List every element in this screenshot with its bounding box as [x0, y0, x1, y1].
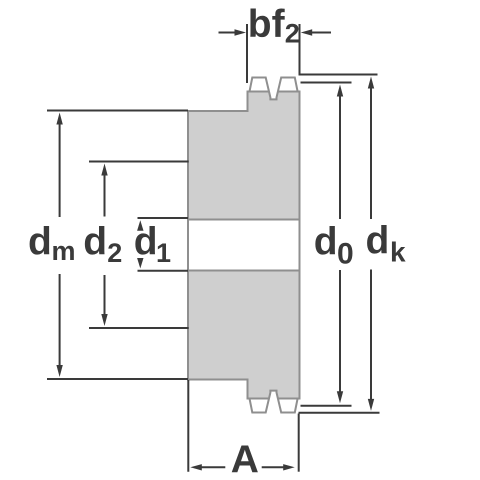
d1 up arrowhead: [137, 220, 143, 231]
dm dimension line with arrows: [59, 123, 61, 367]
bottom teeth + groove white fill: [250, 391, 298, 413]
A left extension line: [187, 380, 189, 472]
svg-text:m: m: [52, 236, 76, 266]
d0 dimension line with arrows: [339, 95, 341, 393]
hub outline: [188, 92, 248, 399]
dm bottom extension line: [47, 378, 188, 380]
dk bottom extension line: [299, 412, 380, 414]
A right arrow: [262, 466, 284, 468]
bottom teeth profile outline: [250, 391, 298, 413]
d1 bottom extension line: [138, 270, 189, 272]
bf2 right extension line + dk top extension line: [300, 24, 378, 75]
svg-text:2: 2: [107, 238, 122, 268]
A left arrow: [201, 466, 225, 468]
bf2 left arrow: [219, 32, 237, 34]
dk dimension line with arrows: [370, 87, 372, 400]
d0 top extension line: [301, 82, 352, 84]
svg-text:0: 0: [337, 238, 354, 271]
shoulder line top: [247, 91, 301, 93]
svg-text:A: A: [231, 439, 259, 480]
bf2 left extension line: [246, 24, 248, 83]
top teeth + groove white fill: [250, 78, 298, 100]
A right extension line: [298, 414, 300, 472]
bore (hole) white band: [187, 221, 301, 270]
svg-text:d: d: [28, 221, 52, 264]
svg-text:k: k: [390, 237, 406, 268]
top teeth profile outline: [250, 78, 298, 100]
right edge of tooth plate: [299, 91, 301, 400]
d1 top extension line: [138, 217, 189, 219]
d0 bottom extension line: [301, 405, 352, 407]
svg-text:2: 2: [285, 18, 300, 48]
svg-text:d: d: [83, 221, 107, 264]
d2 top extension line: [89, 161, 189, 163]
svg-text:d: d: [134, 221, 158, 264]
d1 down arrowhead: [137, 258, 143, 269]
bf2 right arrow: [311, 32, 332, 34]
svg-text:d: d: [314, 221, 338, 264]
bore bottom edge: [188, 270, 300, 272]
svg-text:d: d: [366, 220, 390, 263]
sprocket body fill (hub + tooth plate cross-section): [188, 92, 300, 399]
shoulder line bottom: [247, 398, 301, 400]
dm top extension line: [47, 110, 188, 112]
svg-text:bf: bf: [248, 3, 286, 46]
bore top edge: [188, 219, 300, 221]
svg-text:1: 1: [156, 238, 171, 268]
d2 bottom extension line: [89, 327, 189, 329]
d2 dimension line with arrows: [104, 174, 106, 316]
